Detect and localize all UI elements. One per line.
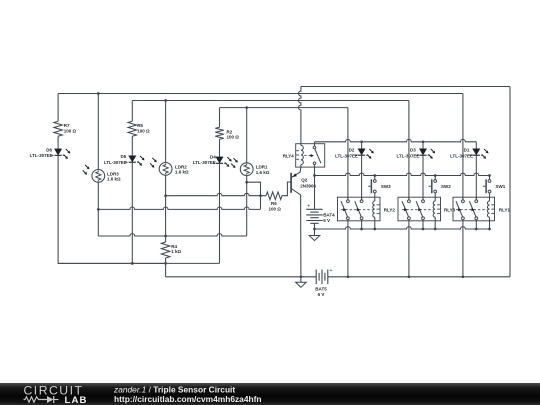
svg-text:LTL-307EE: LTL-307EE: [104, 160, 127, 165]
photoresistor LDR3: [83, 165, 105, 182]
svg-text:R7: R7: [64, 123, 70, 128]
node sw2 on BAT4 rail: [422, 228, 425, 231]
wire ground bus H4: [58, 262, 219, 264]
wire R7 to D6: [57, 136, 59, 149]
svg-text:LTL-307EE: LTL-307EE: [396, 154, 419, 159]
wire top rail branch1 (net N1): [58, 93, 463, 95]
LED D5: [126, 156, 145, 166]
node coil on BAT4 rail: [434, 228, 437, 231]
svg-text:SW1: SW1: [496, 184, 506, 189]
transistor Q2 body: [291, 167, 301, 195]
node BAT4 plus rail junction: [313, 174, 316, 177]
svg-text:R5: R5: [137, 123, 143, 128]
wire LDR3 bottom lead: [97, 182, 99, 236]
wire relay sw2 bottom to BAT4 rail: [361, 221, 363, 229]
wire relay coil bottom to BAT4 rail: [374, 221, 376, 229]
node D5 cathode on ground bus: [131, 262, 134, 265]
relay RLY1: [453, 197, 510, 221]
ground GND1 at BAT5 minus: [296, 277, 307, 288]
wire branch1 upper lead: [57, 94, 59, 122]
label D1: [450, 148, 473, 159]
relay RLY3: [398, 197, 456, 221]
node junction on rail2 for LDR2: [164, 99, 167, 102]
wire BAT5 line right segment: [328, 276, 510, 278]
svg-text:LTL-307EE: LTL-307EE: [30, 153, 53, 158]
wire relay sw1 bottom to BAT5 line: [408, 221, 410, 277]
wire relay sw2 bottom to BAT4 rail: [422, 221, 424, 229]
svg-text:100 Ω: 100 Ω: [227, 135, 240, 140]
label D5: [104, 154, 127, 165]
svg-text:1.6 kΩ: 1.6 kΩ: [256, 170, 270, 175]
wire R6 line (base node): [166, 193, 266, 195]
wire top rail branch3 (net N3): [220, 107, 348, 109]
resistor R7: [54, 121, 62, 136]
label LDR1: [256, 165, 270, 175]
label R2: [227, 129, 240, 139]
wire LDR1 bottom lead: [246, 176, 248, 236]
svg-text:LTL-307EE: LTL-307EE: [450, 154, 473, 159]
wire feed rail2 to RLY3: [408, 101, 410, 200]
wire R4 bottom to BAT5 line: [165, 258, 167, 277]
wire branch3 upper lead: [219, 108, 221, 128]
label R6: [269, 201, 282, 212]
label R5: [137, 123, 150, 133]
wire feed rail3 to RLY2: [347, 108, 349, 200]
ground GND2 below BAT4: [309, 236, 320, 241]
svg-text:D5: D5: [121, 154, 127, 159]
resistor R4: [161, 242, 169, 258]
wire relay sw1 bottom to BAT5 line: [347, 221, 349, 277]
wire LDR2 bottom lead to R4: [165, 175, 167, 242]
battery BAT5: [316, 268, 332, 284]
svg-text:LDR1: LDR1: [256, 165, 268, 170]
label RLY4: [283, 153, 295, 158]
relay RLY4 switch: [313, 146, 321, 164]
node BAT4 minus junction: [313, 228, 316, 231]
wire D2 cathode to relay switch: [361, 155, 363, 200]
svg-text:D2: D2: [349, 148, 355, 153]
wire LDR2 top lead: [165, 101, 167, 163]
svg-text:1.6 kΩ: 1.6 kΩ: [107, 177, 121, 182]
label LDR2: [175, 164, 189, 174]
wire D1 anode lead: [475, 142, 477, 149]
wire top rail branch2 (net N2): [132, 100, 409, 102]
node LDR2 on R6 line: [164, 194, 167, 197]
wire LDR1 link to base node: [247, 182, 261, 196]
svg-text:RLY1: RLY1: [499, 208, 511, 213]
svg-text:LTL-307EE: LTL-307EE: [335, 154, 358, 159]
node junction on rail3 for LDR1: [245, 106, 248, 109]
svg-text:RLY3: RLY3: [444, 208, 456, 213]
label D4: [193, 154, 216, 165]
svg-text:1.6 kΩ: 1.6 kΩ: [175, 170, 189, 175]
resistor R2: [215, 127, 223, 139]
node R4 bottom junction: [164, 262, 167, 265]
svg-text:LAB: LAB: [65, 395, 88, 405]
label R4: [171, 244, 181, 254]
label LDR3: [107, 171, 121, 181]
resistor R5: [128, 121, 136, 136]
svg-text:1 kΩ: 1 kΩ: [171, 249, 181, 254]
svg-text:R4: R4: [171, 244, 177, 249]
LED D4: [213, 157, 232, 167]
label BAT5: [315, 286, 327, 296]
switch SW1: [483, 174, 506, 197]
wire BAT4 minus rail: [315, 227, 490, 229]
node RLY2 sw1 bottom on BAT5 line: [347, 275, 350, 278]
svg-text:R2: R2: [227, 129, 233, 134]
svg-text:SW2: SW2: [441, 184, 451, 189]
svg-text:100 Ω: 100 Ω: [64, 128, 77, 133]
relay RLY4 box: [296, 144, 325, 167]
svg-text:+: +: [307, 204, 310, 210]
node sw2 on BAT4 rail: [360, 228, 363, 231]
wire relay coil bottom to BAT4 rail: [489, 221, 491, 229]
wire branch2 upper lead: [131, 101, 133, 122]
wire far-right vertical (net VBAT5+): [509, 87, 511, 277]
node D2 anode: [360, 140, 363, 143]
node sw2 on BAT4 rail: [475, 228, 478, 231]
node coil on BAT4 rail: [488, 228, 491, 231]
wire D6 cathode down to ground bus: [58, 155, 166, 263]
relay RLY4 coil: [296, 145, 303, 167]
LED D3: [416, 149, 435, 159]
svg-text:LTL-307EE: LTL-307EE: [193, 160, 216, 165]
svg-text:BAT5: BAT5: [315, 286, 327, 291]
wire D2 anode lead: [361, 142, 363, 149]
svg-text:100 Ω: 100 Ω: [137, 128, 150, 133]
wire D3 anode lead: [422, 142, 424, 149]
wire R6 to Q2 base: [282, 182, 291, 196]
svg-text:D6: D6: [46, 147, 52, 152]
node link on R6 line: [259, 194, 262, 197]
node R4 top junction: [164, 235, 167, 238]
svg-text:http://circuitlab.com/cvm4mh6z: http://circuitlab.com/cvm4mh6za4hfn: [114, 394, 262, 404]
wire relay coil bottom to BAT4 rail: [434, 221, 436, 229]
node collector-ground junction: [300, 275, 303, 278]
wire link down to base bus corner: [260, 196, 262, 210]
relay RLY4 dashed actuator: [304, 154, 314, 157]
node LDR3 branch to base bus: [97, 208, 100, 211]
svg-text:RLY4: RLY4: [283, 153, 295, 158]
svg-text:+: +: [329, 268, 332, 274]
wire relay sw2 bottom to BAT4 rail: [475, 221, 477, 229]
wire D5 cathode down to ground bus: [131, 162, 133, 263]
wire D1 cathode to relay switch: [475, 155, 477, 200]
svg-text:5 V: 5 V: [318, 292, 325, 297]
wire D3 cathode to relay switch: [422, 155, 424, 200]
switch SW2: [429, 174, 452, 197]
node D5 junction H4: [131, 262, 134, 265]
label D3: [396, 148, 419, 159]
svg-text:zander.1 / Triple Sensor Circu: zander.1 / Triple Sensor Circuit: [113, 385, 235, 395]
label Q2: [300, 177, 316, 188]
wire R2 to D4: [219, 139, 221, 157]
label D6: [30, 147, 53, 158]
node RLY3 sw1 bottom on BAT5 line: [408, 275, 411, 278]
svg-text:BAT4: BAT4: [323, 212, 335, 217]
svg-text:LDR2: LDR2: [175, 164, 187, 169]
svg-text:Q2: Q2: [301, 177, 308, 182]
wire BAT4 plus rail: [315, 173, 491, 175]
wire feed rail1 to RLY1: [462, 94, 464, 200]
label R7: [64, 123, 77, 133]
wire RLY4 coil-top vertical with hops: [299, 87, 301, 146]
node LDR1 bottom junction: [245, 181, 248, 184]
wire sensor bus H3: [98, 234, 246, 236]
wire RLY4 switch bottom to BAT4: [314, 165, 316, 210]
wire BAT4 bottom lead: [314, 223, 316, 235]
svg-text:5 V: 5 V: [323, 218, 330, 223]
wire RLY4 switch top to LED rail: [314, 142, 316, 146]
node D3 anode: [422, 140, 425, 143]
logo diode: [47, 396, 54, 403]
wire relay sw1 bottom to BAT5 line: [462, 221, 464, 277]
svg-text:D1: D1: [464, 148, 470, 153]
logo resistor: [24, 397, 48, 402]
svg-text:LDR3: LDR3: [107, 171, 119, 176]
wire R5 to D5: [131, 136, 133, 156]
photoresistor LDR2: [150, 158, 172, 175]
LED D6: [51, 149, 70, 159]
svg-text:SW3: SW3: [381, 184, 391, 189]
wire base bus H2: [98, 207, 260, 209]
node coil on BAT4 rail: [373, 228, 376, 231]
svg-text:D4: D4: [210, 154, 216, 159]
resistor R6: [266, 192, 282, 200]
relay RLY2: [338, 197, 396, 221]
label BAT4: [323, 212, 335, 222]
svg-text:100 Ω: 100 Ω: [269, 207, 282, 212]
battery BAT4: [306, 204, 322, 224]
wire Q2 collector down: [300, 195, 302, 277]
svg-text:R6: R6: [271, 201, 277, 206]
wire LDR1 top lead: [246, 108, 248, 163]
node junction on rail1 for LDR3: [97, 92, 100, 95]
wire D4 cathode down to ground bus right end: [219, 163, 221, 263]
wire LDR3 top lead: [97, 94, 99, 170]
LED D2: [355, 149, 374, 159]
LED D1: [470, 149, 489, 159]
svg-text:RLY2: RLY2: [384, 208, 396, 213]
svg-text:D3: D3: [410, 148, 416, 153]
wire BAT5 line left segment: [166, 276, 317, 278]
node RLY1 sw1 bottom on BAT5 line: [462, 275, 465, 278]
wire RLY4 coil top to right side (net VBAT5+): [301, 86, 510, 88]
photoresistor LDR1: [231, 158, 253, 175]
switch SW3: [368, 174, 391, 197]
wire LED anode rail: [315, 139, 477, 141]
label D2: [335, 148, 358, 159]
